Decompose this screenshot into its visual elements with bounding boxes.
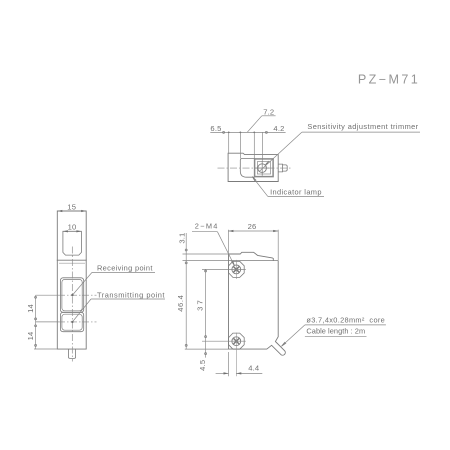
front lens bezel upper [60, 278, 83, 313]
svg-text:14: 14 [26, 304, 35, 313]
dim text 7.2 with leader [247, 108, 275, 133]
left dim terminator circles [35, 296, 37, 346]
dim 4.4 [216, 352, 263, 376]
svg-text:46.4: 46.4 [176, 295, 185, 312]
front lens bezel lower [60, 312, 83, 331]
dim 4.5 text [198, 360, 207, 371]
front face inner edge line [59, 262, 85, 264]
lower screw center mark vertical / 4.4 extension [235, 333, 237, 377]
front bottom extension line [34, 348, 57, 350]
svg-text:6.5: 6.5 [210, 124, 221, 133]
svg-text:Sensitivity adjustment trimmer: Sensitivity adjustment trimmer [307, 122, 418, 131]
svg-text:10: 10 [68, 223, 77, 232]
svg-text:3.1: 3.1 [178, 233, 187, 244]
front view cap outline [57, 211, 86, 260]
lower screw boss [229, 333, 245, 349]
dim text 15 [67, 203, 76, 212]
dim 26 line [228, 230, 278, 261]
front horizontal centerline upper lens [36, 294, 59, 296]
top view lens window [240, 159, 254, 178]
svg-text:7.2: 7.2 [263, 108, 274, 117]
dim text 26 [248, 222, 257, 231]
lower screw head M4 [232, 337, 241, 346]
label indicator lamp [252, 177, 324, 197]
side view body outline [229, 252, 286, 355]
dim 10 arrows on window top [63, 230, 82, 232]
trimmer bezel inner square [257, 162, 270, 174]
dim text 6.5 [210, 124, 221, 133]
dim 26 arrows [228, 230, 278, 232]
trimmer circle [258, 164, 267, 173]
svg-text:Receiving point: Receiving point [97, 264, 153, 273]
upper screw center marks [235, 260, 237, 279]
lower screw phillips slot [234, 338, 240, 344]
svg-text:4.4: 4.4 [248, 364, 259, 373]
upper screw boss [229, 261, 245, 277]
svg-text:15: 15 [67, 203, 76, 212]
svg-text:14: 14 [26, 332, 35, 341]
svg-text:37: 37 [196, 298, 205, 311]
dim text 10 [68, 223, 77, 232]
svg-text:4.5: 4.5 [198, 360, 207, 371]
label receiving point [71, 264, 155, 297]
svg-text:2−M4: 2−M4 [195, 222, 219, 231]
side bottom extension line [185, 348, 229, 350]
svg-text:4.2: 4.2 [273, 124, 284, 133]
top view centerline [218, 167, 293, 169]
label transmitting point [71, 290, 165, 323]
front window outline [63, 231, 82, 255]
label 2-M4 [192, 222, 234, 266]
front vertical centerline [71, 247, 73, 362]
label sensitivity adjustment trimmer [259, 122, 420, 172]
chain dim dots [228, 132, 255, 134]
svg-text:ø3.7,4x0.28mm² core: ø3.7,4x0.28mm² core [306, 316, 385, 325]
top view cable gland stub [278, 164, 287, 172]
trimmer cross marks [255, 161, 269, 176]
front cable stub [69, 349, 76, 358]
chain dim end circles [223, 131, 268, 133]
svg-text:Cable length : 2m: Cable length : 2m [306, 326, 365, 335]
dim text 4.2 [273, 124, 284, 133]
dim 46.4 line [176, 233, 187, 349]
svg-text:26: 26 [248, 222, 257, 231]
front view body outline [57, 260, 86, 349]
title PZ-M71 [358, 73, 420, 87]
label cable spec [282, 316, 386, 347]
top view chain dimension line [210, 131, 285, 133]
left dimension line 14+14 [35, 295, 37, 349]
transmitting lens [62, 314, 82, 330]
dim text 14 upper [26, 304, 35, 313]
svg-text:Transmitting point: Transmitting point [97, 290, 165, 299]
svg-text:PZ−M71: PZ−M71 [358, 73, 420, 87]
svg-text:Indicator lamp: Indicator lamp [270, 188, 322, 197]
chain dim extension lines [229, 132, 263, 160]
dim 37 line [196, 269, 246, 357]
upper screw phillips slot [234, 267, 240, 273]
trimmer bezel outer square [255, 159, 274, 177]
top view body outline [228, 153, 278, 181]
dim text 14 lower [26, 332, 35, 341]
front horizontal centerline lower lens [36, 321, 59, 323]
upper screw head M4 [232, 265, 241, 274]
side face top line [229, 260, 279, 262]
front shoulder line [57, 259, 87, 261]
receiving lens [62, 279, 82, 310]
dim 3.1 [178, 233, 229, 264]
dim 15 arrows on cap top [57, 210, 86, 212]
